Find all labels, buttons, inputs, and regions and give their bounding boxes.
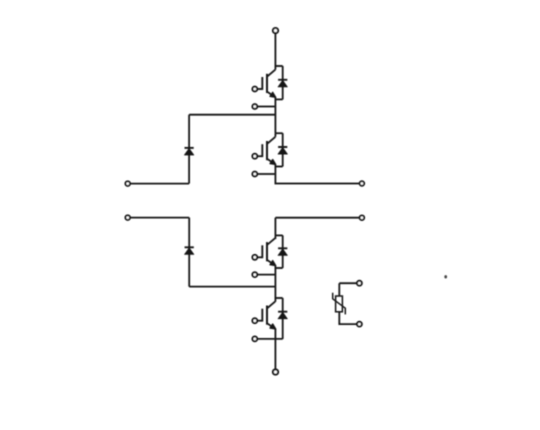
stray dot mark [444,275,447,278]
terminal NTC bottom [357,322,362,327]
wire NTC top [339,283,356,296]
node tee T2 collector [275,132,282,134]
terminal T3 aux emitter [252,272,257,277]
node tee T3 collector to D3 branch [275,234,282,236]
wire T3 collector drop [274,235,276,239]
wire clamp lower vertical [188,218,190,287]
wire left terminal lower [131,217,190,219]
wire D1 bottom to emitter [275,98,282,100]
diode D1 (antiparallel to T1) [278,80,287,87]
terminal NTC top [357,281,362,286]
wire T1 emitter vertical [274,97,276,133]
wire T3 aux emitter [258,274,276,276]
diode D5 (upper clamp) [184,148,193,155]
transistor T2 (second IGBT) [252,137,275,165]
wire T1 collector drop [274,66,276,70]
terminal AC-left upper [125,181,130,186]
diode D6 (lower clamp) [185,247,194,254]
transistor T4 (bottom IGBT) [252,301,275,329]
wire T4 emitter to DC- [274,329,276,369]
wire T4 collector drop [274,298,276,302]
wire D2 bottom to emitter [275,166,282,168]
wire T3 emitter vertical [274,266,276,299]
wire T1 aux emitter [258,106,276,108]
wire T2 emitter to output [275,164,359,183]
diode D2 (antiparallel to T2) [278,147,287,154]
terminal AC-left lower [125,215,130,220]
terminal AC-right lower [360,215,365,220]
terminal AC-right upper [360,181,365,186]
wire D4 branch vertical [282,298,284,339]
wire T3 collector vertical [274,218,276,236]
wire D3 bottom to emitter [275,267,282,269]
diode D4 (antiparallel to T4) [278,312,287,319]
terminal T1 aux emitter [252,104,257,109]
wire clamp node lower horizontal [189,286,275,288]
wire T2 collector drop [274,133,276,137]
terminal T4 aux emitter [252,337,257,342]
wire NTC bottom [339,312,356,324]
wire T4 aux emitter crossing to D4 bottom [258,338,283,340]
wire clamp node upper horizontal [189,114,275,116]
wire T2 aux emitter [258,173,276,175]
wire clamp upper vertical [188,115,190,184]
wire lower input horizontal [275,217,359,219]
transistor T3 (third IGBT) [252,238,275,266]
wire DC+ to T1 collector [274,34,276,67]
terminal T2 aux emitter [252,172,257,177]
thermistor R1 body [336,296,343,312]
wire left terminal upper [131,183,190,185]
terminal DC- (bottom) [273,369,278,374]
thermistor R1 diagonal [333,293,346,315]
diode D3 (antiparallel to T3) [278,248,287,255]
terminal DC+ (top) [273,28,278,33]
wire D1 branch vertical [282,66,284,99]
node tee T4 collector [275,297,282,299]
wire D3 branch vertical [282,235,284,268]
transistor T1 (top IGBT) [252,70,275,98]
wire D2 branch vertical [282,133,284,166]
node tee T1 collector to D1 branch [275,65,282,67]
